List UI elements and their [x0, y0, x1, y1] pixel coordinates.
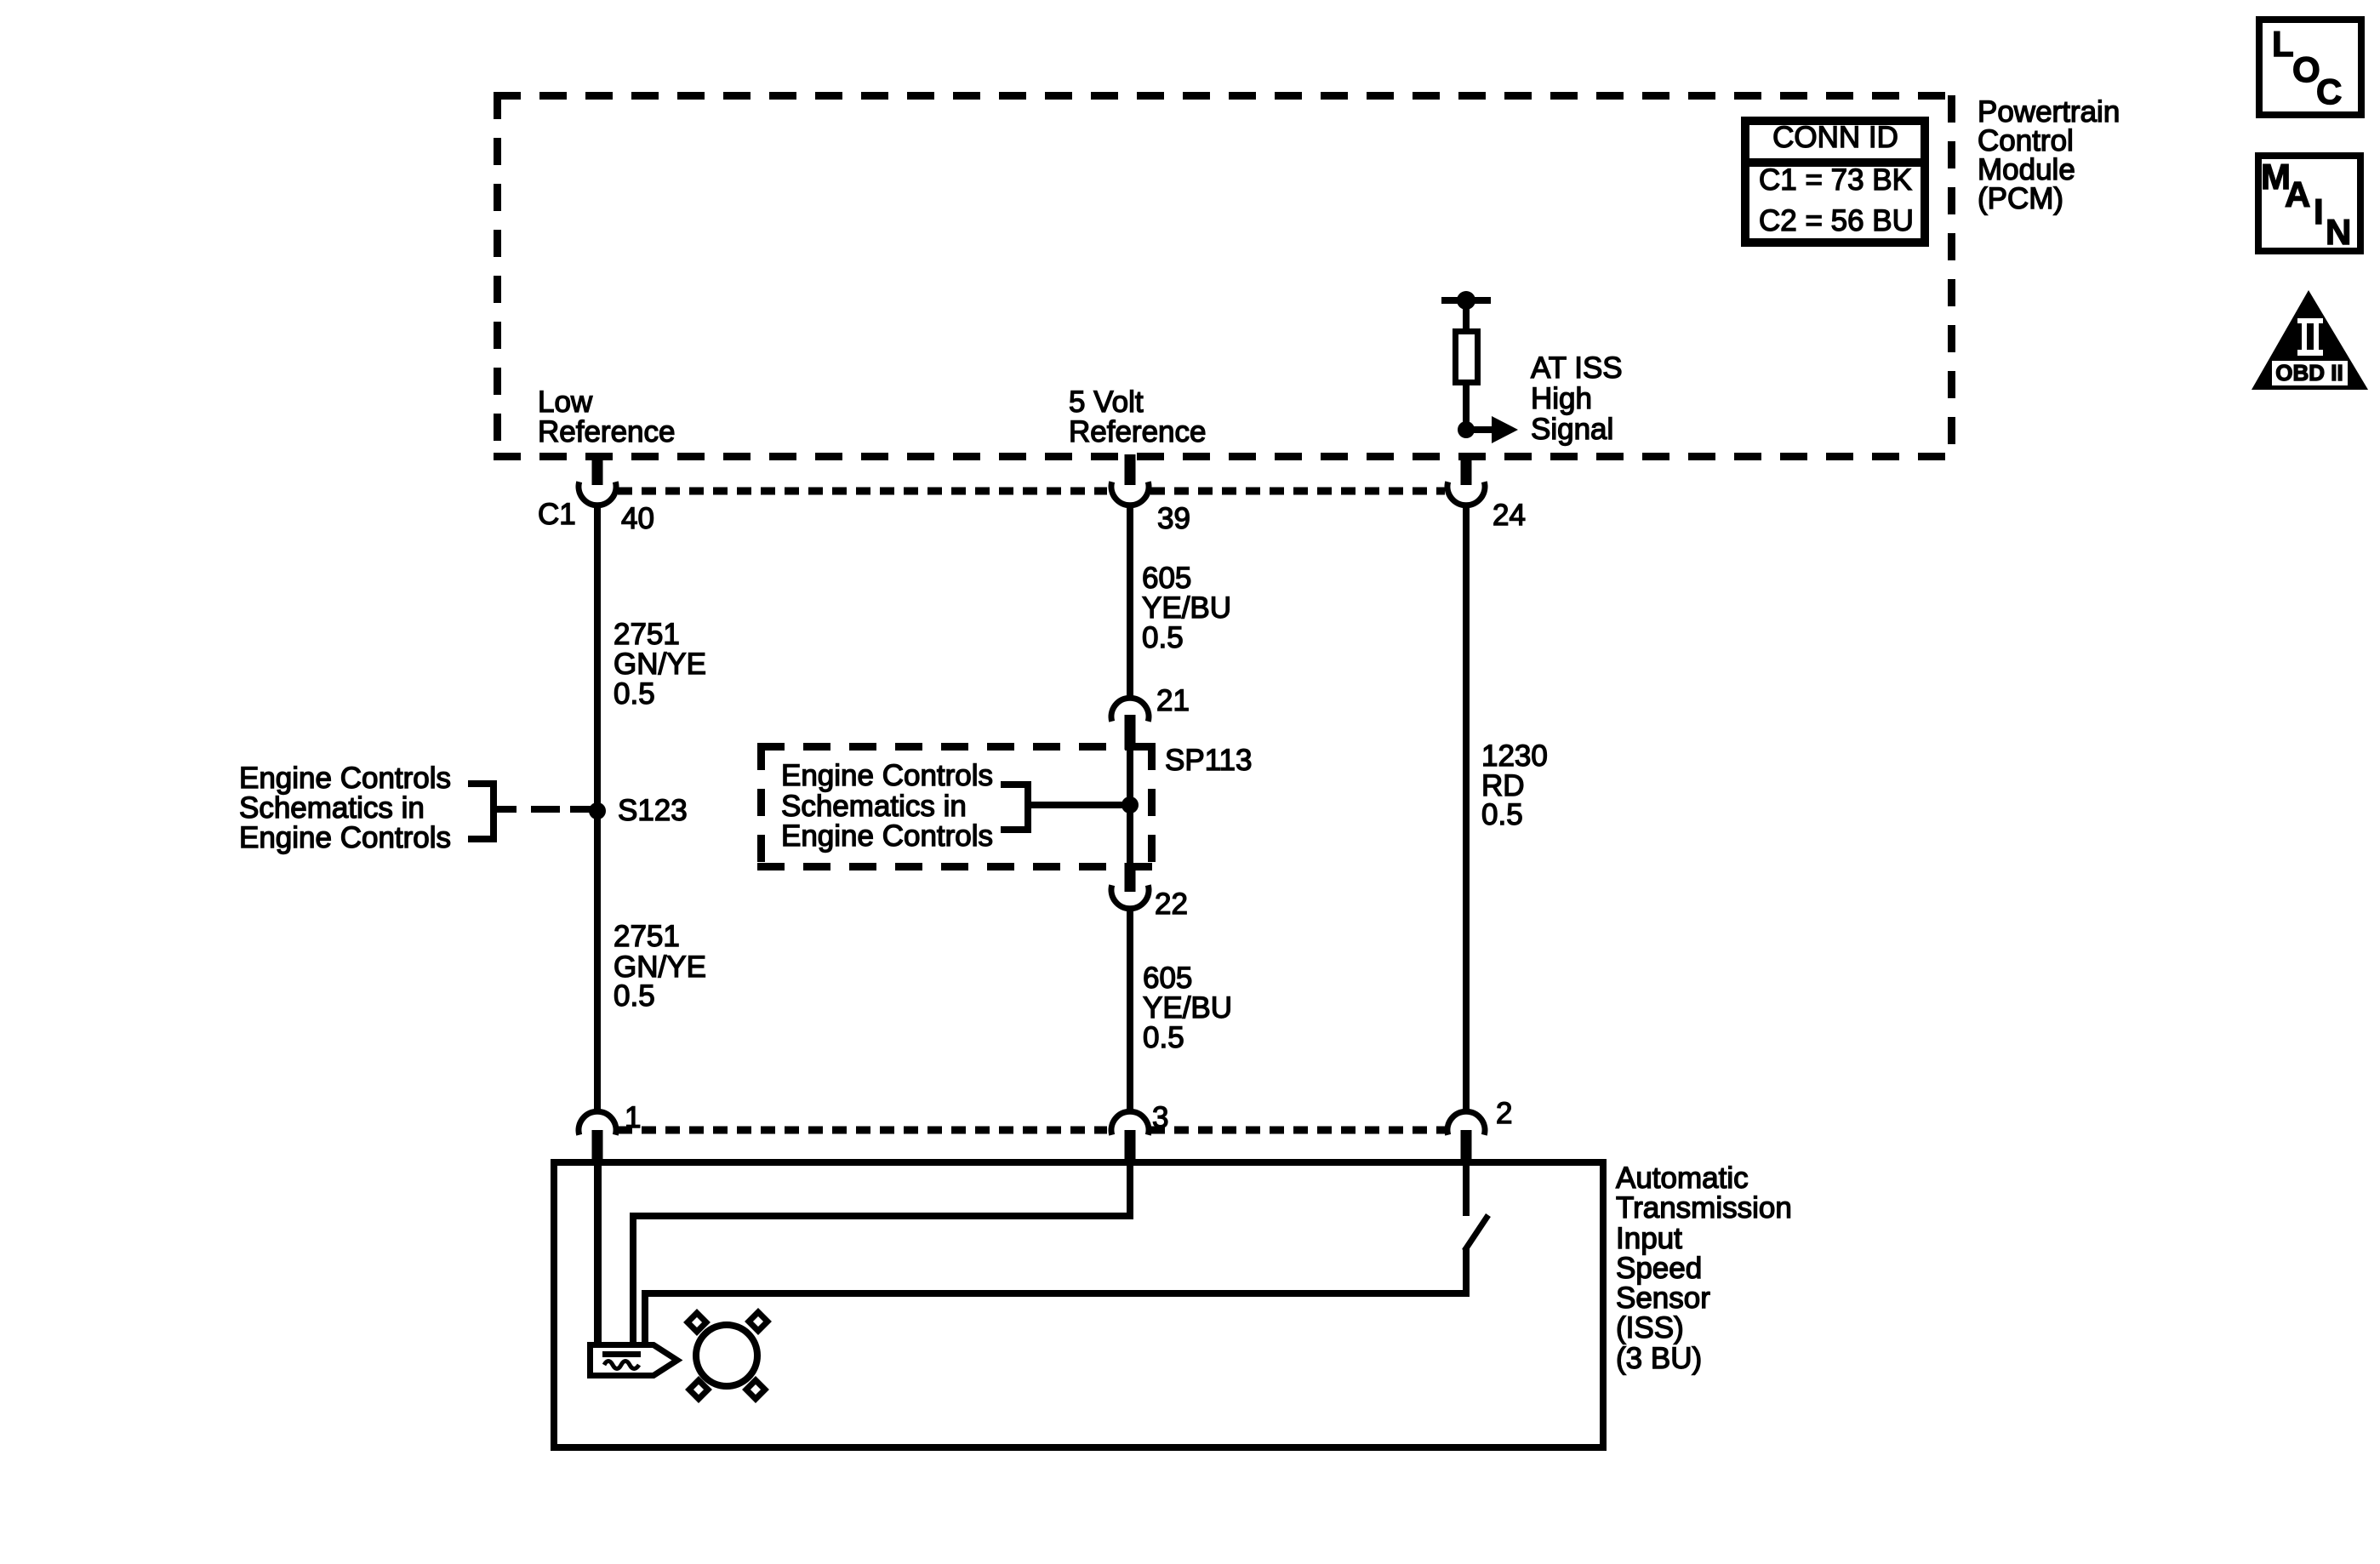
svg-text:Reference: Reference — [1069, 415, 1206, 448]
svg-text:YE/BU: YE/BU — [1142, 591, 1231, 625]
svg-text:CONN ID: CONN ID — [1772, 121, 1898, 154]
svg-text:21: 21 — [1156, 684, 1190, 717]
svg-text:5 Volt: 5 Volt — [1069, 385, 1144, 419]
wire 605 YE/BU upper segment — [1127, 504, 1133, 699]
node dot AT ISS high signal — [1458, 421, 1475, 438]
arrow AT ISS high signal — [1466, 416, 1518, 443]
svg-text:AT ISS: AT ISS — [1531, 351, 1623, 385]
engine controls reference bracket left — [468, 780, 517, 842]
resistor (AT ISS pull-up) tee bar — [1441, 297, 1491, 304]
tee junction dot — [1457, 291, 1475, 310]
svg-text:GN/YE: GN/YE — [614, 648, 706, 681]
engine controls schematics label left — [239, 762, 451, 854]
wire label 2751 GN/YE 0.5 lower — [614, 920, 706, 1013]
svg-text:Automatic: Automatic — [1616, 1162, 1749, 1195]
svg-text:(ISS): (ISS) — [1616, 1311, 1684, 1344]
wire pin3 vertical inside box — [1127, 1164, 1133, 1219]
svg-text:C: C — [2316, 71, 2342, 111]
wire label 1230 RD 0.5 — [1481, 739, 1548, 831]
wire bracket to SP113 splice — [1031, 802, 1133, 808]
rotor stud bottom-right — [746, 1380, 765, 1399]
wire through SP113 — [1127, 747, 1133, 866]
svg-text:605: 605 — [1142, 562, 1191, 595]
dashed leader to S123 — [531, 806, 591, 813]
AT ISS high signal label — [1531, 351, 1623, 446]
plug wave — [604, 1361, 639, 1369]
svg-text:Sensor: Sensor — [1616, 1281, 1710, 1315]
wire label 2751 GN/YE 0.5 upper — [614, 618, 706, 711]
svg-text:(3 BU): (3 BU) — [1616, 1342, 1702, 1375]
pin 3 stub — [1125, 1130, 1136, 1164]
PCM label text — [1978, 95, 2120, 215]
rotor stud top-left — [688, 1313, 706, 1332]
wire label 605 YE/BU 0.5 lower — [1143, 962, 1232, 1054]
svg-text:Engine Controls: Engine Controls — [781, 819, 993, 853]
svg-text:Speed: Speed — [1616, 1252, 1702, 1285]
svg-text:N: N — [2326, 212, 2351, 252]
5 Volt Reference label — [1069, 385, 1206, 448]
splice S123 dot — [589, 802, 606, 819]
svg-text:24: 24 — [1492, 499, 1526, 532]
svg-text:2751: 2751 — [614, 618, 680, 651]
svg-text:Schematics in: Schematics in — [239, 791, 425, 825]
resistor R — [1456, 332, 1478, 383]
LOC symbol box — [2259, 20, 2361, 115]
connector dotted line row 2 — [618, 1127, 1445, 1134]
pin 1 stub — [592, 1130, 603, 1164]
svg-text:High: High — [1531, 382, 1592, 415]
plug bar — [602, 1351, 641, 1357]
svg-text:0.5: 0.5 — [1142, 621, 1184, 654]
svg-text:40: 40 — [621, 502, 654, 535]
switch blade — [1464, 1215, 1488, 1251]
svg-text:Engine Controls: Engine Controls — [239, 762, 451, 795]
splice SP113 dot — [1122, 796, 1139, 813]
svg-text:2: 2 — [1496, 1097, 1512, 1130]
wire 605 YE/BU lower segment — [1127, 909, 1133, 1111]
sensor rotor circle — [696, 1325, 757, 1386]
engine controls reference bracket center — [1001, 781, 1031, 833]
sensor plug pentagon — [591, 1345, 678, 1376]
wire resistor to node — [1463, 382, 1470, 433]
wire 1230 RD segment — [1463, 504, 1470, 1111]
MAIN symbol box — [2258, 156, 2360, 252]
CONN ID table — [1741, 121, 1929, 243]
wire pin1 to sensor plug — [594, 1164, 602, 1345]
svg-text:Signal: Signal — [1531, 413, 1613, 446]
wire tee to resistor — [1463, 304, 1470, 330]
svg-text:1: 1 — [625, 1101, 641, 1134]
pin 24 connector arc — [1447, 482, 1485, 505]
wire pin2 drop to plug — [642, 1290, 648, 1345]
svg-text:YE/BU: YE/BU — [1143, 991, 1232, 1025]
wire 2751 GN/YE upper segment — [594, 504, 601, 1112]
ISS label — [1616, 1162, 1792, 1375]
wire label 605 YE/BU 0.5 upper — [1142, 562, 1231, 654]
pin 40 stub — [592, 454, 603, 485]
svg-text:Schematics in: Schematics in — [781, 790, 967, 823]
svg-text:A: A — [2285, 174, 2310, 214]
svg-text:39: 39 — [1157, 502, 1190, 535]
OBD II triangle symbol — [2252, 290, 2368, 390]
svg-text:Reference: Reference — [538, 415, 675, 448]
svg-text:0.5: 0.5 — [1481, 798, 1523, 831]
ISS sensor box — [554, 1162, 1603, 1447]
svg-text:0.5: 0.5 — [1143, 1021, 1184, 1054]
svg-text:OBD II: OBD II — [2275, 360, 2343, 385]
svg-text:22: 22 — [1155, 888, 1188, 921]
svg-text:SP113: SP113 — [1165, 744, 1253, 777]
pin 1 connector arc — [579, 1111, 616, 1135]
connector C1 dotted line row 1 — [618, 488, 1445, 495]
svg-text:Low: Low — [538, 385, 593, 419]
wire pin3 horizontal — [630, 1213, 1133, 1219]
svg-text:0.5: 0.5 — [614, 677, 655, 711]
svg-text:Engine Controls: Engine Controls — [239, 821, 451, 854]
svg-text:C1: C1 — [538, 498, 576, 531]
svg-text:(PCM): (PCM) — [1978, 182, 2063, 215]
pin 21 connector arc — [1111, 698, 1149, 722]
pin 3 connector arc — [1111, 1111, 1149, 1135]
pin 39 stub — [1125, 454, 1136, 485]
rotor stud top-right — [749, 1312, 768, 1331]
svg-text:C1 = 73 BK: C1 = 73 BK — [1759, 163, 1912, 197]
svg-text:3: 3 — [1152, 1101, 1168, 1134]
svg-text:L: L — [2272, 24, 2294, 64]
svg-text:C2 = 56 BU: C2 = 56 BU — [1759, 204, 1914, 237]
svg-text:S123: S123 — [618, 794, 688, 827]
splice pack dashed box — [757, 743, 1156, 870]
pin 39 connector arc — [1111, 482, 1149, 505]
wire pin2 horizontal — [642, 1290, 1470, 1297]
engine controls schematics label center — [781, 759, 993, 853]
svg-text:1230: 1230 — [1481, 739, 1548, 773]
svg-text:Transmission: Transmission — [1616, 1191, 1792, 1224]
pin 24 stub — [1461, 454, 1472, 485]
pin 22 connector arc — [1111, 885, 1149, 909]
wire pin3 drop to plug — [630, 1213, 636, 1345]
svg-text:Engine Controls: Engine Controls — [781, 759, 993, 792]
pin 2 connector arc — [1447, 1111, 1485, 1135]
pin 40 connector arc — [579, 482, 616, 505]
pin 22 stub — [1125, 863, 1136, 892]
pin 21 stub — [1125, 715, 1136, 750]
PCM module dashed box — [494, 92, 1955, 460]
pin 2 stub — [1461, 1130, 1472, 1164]
svg-text:2751: 2751 — [614, 920, 680, 953]
svg-text:I: I — [2314, 191, 2324, 231]
rotor stud bottom-left — [689, 1380, 708, 1399]
svg-text:0.5: 0.5 — [614, 979, 655, 1013]
svg-text:605: 605 — [1143, 962, 1192, 995]
wire pin2 vertical inside box — [1463, 1164, 1470, 1216]
Low Reference label — [538, 385, 675, 448]
svg-text:Input: Input — [1616, 1222, 1682, 1255]
wire below switch — [1463, 1247, 1470, 1297]
